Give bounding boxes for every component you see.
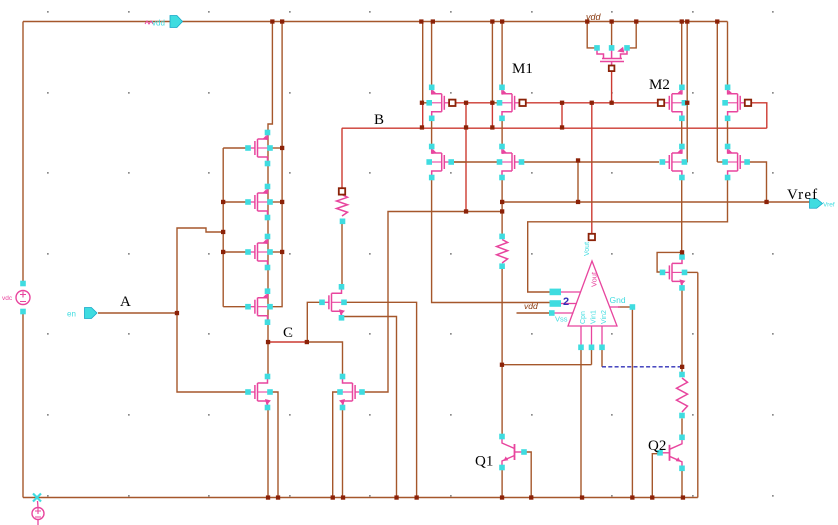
wire rail to moscap left bbox=[587, 22, 597, 48]
pmos T4 (diode stack) bbox=[257, 298, 259, 316]
junction gnd/N2 bbox=[341, 495, 345, 499]
resistor R1 bbox=[337, 195, 348, 216]
wire rail to moscap right bbox=[627, 22, 636, 48]
wire R3 to Q2 collector bbox=[681, 419, 683, 438]
wire M1 bulk bus lower bbox=[491, 103, 493, 128]
junction gnd/Cpn bbox=[580, 495, 584, 499]
junction col1 bulk bus bbox=[420, 101, 424, 105]
junction node C bbox=[266, 340, 270, 344]
wire node C to N2 drain bbox=[307, 342, 343, 377]
transistor Q2 (PNP) bbox=[669, 445, 671, 461]
wire N3 bulk stub bbox=[685, 271, 698, 273]
wire gate bus to node A bbox=[177, 228, 223, 313]
wire N1 bulk to ground bbox=[270, 392, 278, 498]
wire stack gate bus bbox=[222, 148, 224, 307]
wire vdd stub to op-amp Vss bbox=[517, 312, 550, 314]
wire Q1 emitter to ground bbox=[501, 468, 503, 498]
wire T4 gate stub bbox=[223, 306, 248, 308]
wire T1 gate stub bbox=[223, 147, 248, 149]
op-amp U1 pin Vin2 bbox=[599, 345, 605, 351]
wire R1 bottom to NB drain bbox=[341, 221, 343, 288]
wire op-amp Gnd stub bbox=[618, 306, 632, 308]
junction rail/M1 src bbox=[500, 19, 504, 23]
junction gnd/Q2 e bbox=[681, 495, 685, 499]
wire Q2 base to ground bbox=[652, 454, 662, 498]
source V1 (vdc) left bbox=[16, 291, 30, 305]
resistor R3 bbox=[677, 378, 688, 412]
nmos N2 bbox=[352, 383, 354, 401]
wire col1 drain to cascode bbox=[431, 118, 433, 148]
junction bias/col1 drop bbox=[464, 101, 468, 105]
svg-text:Vin2: Vin2 bbox=[601, 310, 608, 324]
wire rail to M2 cascode bulk bbox=[686, 22, 688, 163]
pmos M4 cascode bbox=[737, 153, 739, 171]
wire rail to stack bulk bus bbox=[270, 22, 282, 307]
junction Q1 collector / Vin1 bbox=[500, 363, 504, 367]
svg-text:Vss: Vss bbox=[555, 315, 568, 324]
wire N3 gate diode loop bbox=[657, 252, 682, 272]
wire net B down to R1 bbox=[341, 128, 343, 191]
pmos M1 cascode bbox=[511, 153, 513, 171]
terminal M4 gate bbox=[745, 100, 751, 106]
junction B/col1 drop bbox=[464, 125, 468, 129]
junction M2 bulk stub bbox=[685, 101, 689, 105]
pin R1 bottom bbox=[340, 219, 346, 225]
junction gnd/NB bulk bbox=[415, 495, 419, 499]
wire T3 gate stub bbox=[223, 251, 248, 253]
wire N2 source to ground bbox=[342, 408, 344, 498]
pin R2 top bbox=[499, 234, 505, 240]
wire N2 gate to M1 drain node bbox=[362, 212, 501, 393]
op-amp U1 bbox=[568, 261, 617, 326]
wire M1 drain to cascode bbox=[501, 118, 503, 148]
wire vdd top rail bbox=[23, 21, 728, 23]
wire rail to col1 source bbox=[431, 22, 433, 88]
wire M2 bulk stub bbox=[684, 102, 687, 104]
wire diode stack chain vertical bbox=[267, 133, 269, 377]
junction rail/M2 src bbox=[680, 19, 684, 23]
moscap M3 (gate tied to bias) bbox=[597, 48, 627, 66]
junction rail/col1 src bbox=[431, 19, 435, 23]
svg-text:en: en bbox=[67, 310, 76, 319]
wire node C up to NB gate bbox=[307, 302, 322, 342]
wire net Vref horizontal bbox=[502, 201, 810, 203]
terminal moscap gate bbox=[609, 66, 615, 72]
pin R2 bottom bbox=[499, 263, 505, 269]
wire op-amp Vin2 down bbox=[601, 347, 603, 367]
junction M1 drain line / col1 drop bbox=[464, 209, 468, 213]
terminal col1 gate bbox=[449, 100, 455, 106]
port Vref bbox=[810, 199, 823, 209]
terminal M2 gate bbox=[658, 100, 664, 106]
wire op-amp Vin1 down bbox=[591, 347, 593, 364]
wire M1 bulk stub bbox=[492, 102, 499, 104]
wire rail to moscap center bbox=[611, 22, 613, 48]
port vdd (top left) bbox=[170, 16, 183, 28]
op-amp U1 pin IN+ pad bbox=[550, 289, 562, 296]
wire M2 cascode drain down bbox=[681, 178, 683, 253]
terminal op-amp Vout net bbox=[589, 234, 595, 240]
wire op-amp Cpn to ground bbox=[580, 347, 582, 497]
pin V1 minus bbox=[20, 309, 26, 315]
wire gate bias col1-col2 bbox=[454, 102, 492, 104]
op-amp U1 pin IN- pad bbox=[550, 300, 562, 307]
terminal M1 gate bbox=[519, 100, 525, 106]
junction gnd/Gnd pin bbox=[630, 495, 634, 499]
wire M4 cascode bulk stub bbox=[717, 161, 725, 163]
junction M1 drain line bbox=[500, 209, 504, 213]
transistor Q1 (PNP) bbox=[514, 444, 516, 460]
wire bottom rail right end up to nmos N3 bulk bbox=[697, 273, 699, 498]
junction gnd/N2 bulk bbox=[331, 495, 335, 499]
wire cascode gate line bbox=[522, 161, 660, 163]
pmos M4 top right bbox=[737, 94, 739, 112]
svg-text:Q2: Q2 bbox=[648, 438, 666, 454]
junction bulk bus T3 bbox=[280, 250, 284, 254]
junction rail/moscap r bbox=[634, 19, 638, 23]
wire Vref node down to R2 bbox=[501, 202, 503, 236]
wire col1 drain to op-amp IN- bbox=[432, 178, 550, 303]
wire bias to net B drop bbox=[561, 103, 563, 128]
wire col1 bulk stub bbox=[422, 102, 429, 104]
junction rail/col1 bus bbox=[419, 19, 423, 23]
pmos M2 cascode bbox=[671, 153, 673, 171]
wire op-amp Vout vertical bbox=[591, 103, 593, 237]
wire moscap gate to bias line bbox=[611, 71, 613, 103]
svg-text:Gnd: Gnd bbox=[610, 295, 626, 305]
wire T3 bulk stub bbox=[270, 251, 282, 253]
wire Q2 emitter to ground bbox=[681, 468, 683, 498]
svg-text:M1: M1 bbox=[512, 61, 533, 77]
svg-text:Vref: Vref bbox=[787, 187, 818, 203]
pmos col1 cascode bbox=[441, 153, 443, 171]
pin R3 bottom bbox=[679, 413, 685, 419]
wire Q1 base to ground bbox=[522, 452, 531, 498]
op-amp U1 input leads bbox=[555, 292, 621, 347]
wire M4 gate to net B bbox=[748, 103, 767, 128]
junction B/M1 bus bbox=[490, 125, 494, 129]
op-amp U1 pin Cpn bbox=[578, 345, 584, 351]
wire cascode gate line left bbox=[451, 161, 499, 163]
svg-text:B: B bbox=[374, 112, 384, 128]
wire M4 cascode gate to Vref bbox=[747, 162, 767, 202]
junction gnd/Q1 e bbox=[500, 495, 504, 499]
wire M2 drain to cascode bbox=[681, 118, 683, 148]
pmos M1 bbox=[511, 94, 513, 112]
junction bias/Vout bbox=[590, 101, 594, 105]
junction node C / NB gate bbox=[305, 340, 309, 344]
svg-text:vdd: vdd bbox=[524, 301, 538, 311]
wire rail to M2 source bbox=[681, 22, 683, 88]
wire rail to M1 bulk bus bbox=[491, 22, 493, 103]
junction bias/B drop bbox=[560, 101, 564, 105]
ground source V0 bottom left bbox=[33, 494, 41, 502]
wire vdd rail drop to M4 source bbox=[727, 22, 729, 89]
svg-text:vdd: vdd bbox=[152, 19, 165, 28]
junction rail/M4 bulk bbox=[715, 19, 719, 23]
wire left supply vertical lower bbox=[22, 311, 24, 498]
nmos N1 (enable, node A gate) bbox=[257, 383, 259, 401]
wire NB source to ground bbox=[342, 317, 397, 498]
wire node A down to N1 gate bbox=[177, 313, 249, 392]
wire T1 bulk stub bbox=[270, 147, 282, 149]
junction dashed / R3 top bbox=[680, 365, 684, 369]
wire net B horizontal bbox=[342, 127, 767, 129]
junction gnd/Q1 b bbox=[529, 495, 533, 499]
svg-text:vdd: vdd bbox=[586, 12, 602, 22]
wire T2 gate stub bbox=[223, 201, 248, 203]
wire bias drop col1 bbox=[465, 103, 467, 212]
wire M4 drain to cascode bbox=[727, 118, 729, 148]
port en bbox=[85, 308, 98, 319]
junction rail/M2 bulk bbox=[685, 19, 689, 23]
wire rail to M1 source bbox=[501, 22, 503, 88]
wire en input to node A bbox=[98, 312, 177, 314]
junction node A bbox=[175, 311, 179, 315]
svg-text:Vref: Vref bbox=[823, 202, 835, 209]
junction stack gate bus / A feed bbox=[221, 230, 225, 234]
wire N3 source down to R3 bbox=[681, 288, 683, 375]
pmos col1 top bbox=[441, 94, 443, 112]
wire M1 cascode drain to Vref node bbox=[501, 178, 503, 203]
wire N2 bulk to ground bbox=[333, 392, 340, 498]
junction gate bus T2 bbox=[221, 200, 225, 204]
pin V1 plus bbox=[20, 281, 26, 287]
junction gnd/N1 bbox=[266, 495, 270, 499]
wire M2 cascode bulk stub bbox=[684, 161, 687, 163]
wire op-amp Vin1 to Q1 collector node bbox=[502, 364, 592, 366]
junction gnd/Q2 b bbox=[650, 495, 654, 499]
svg-text:C: C bbox=[283, 325, 293, 341]
wire col1 cascode gate stub bbox=[452, 161, 466, 163]
wire N1 source to ground bbox=[267, 407, 269, 498]
wire compensation net (dashed) bbox=[602, 366, 682, 368]
junction rail/M1 bus bbox=[490, 19, 494, 23]
op-amp U1 pin Vin1 bbox=[589, 345, 595, 351]
svg-text:A: A bbox=[120, 294, 131, 310]
svg-text:Vout: Vout bbox=[590, 271, 599, 287]
junction rail/moscap l bbox=[585, 19, 589, 23]
junction Vref / M4 branch bbox=[764, 200, 768, 204]
wire cascode line to Vref drop bbox=[577, 161, 579, 203]
junction B drop bbox=[560, 125, 564, 129]
junction bias/moscap bbox=[610, 101, 614, 105]
terminal R1 top bbox=[339, 188, 345, 194]
pmos T1 (diode stack) bbox=[257, 139, 259, 157]
svg-text:Vin1: Vin1 bbox=[591, 310, 598, 324]
junction rail/bulk bus bbox=[280, 19, 284, 23]
wire node C segment bbox=[268, 341, 307, 343]
junction gnd/NB src bbox=[394, 495, 398, 499]
pin R3 top bbox=[679, 372, 685, 378]
junction gnd/N1 bulk bbox=[276, 495, 280, 499]
junction bulk bus T2 bbox=[280, 200, 284, 204]
junction M1 bulk bus bbox=[490, 101, 494, 105]
wire op-amp Gnd to ground rail bbox=[631, 307, 633, 498]
junction Vref / cascode drop bbox=[576, 200, 580, 204]
junction rail/moscap c bbox=[610, 19, 614, 23]
label tiny pink marks at vdd port bbox=[145, 21, 153, 24]
junction cascode line/Vref drop bbox=[576, 158, 580, 162]
junction gate bus T3 bbox=[221, 250, 225, 254]
wire rail to M4 cascode bulk bbox=[716, 22, 718, 163]
wire R2 bottom to Q1 collector bbox=[501, 266, 503, 436]
junction N3 diode bbox=[680, 250, 684, 254]
svg-text:vdc: vdc bbox=[2, 295, 13, 302]
junction rail/T1 bbox=[270, 19, 274, 23]
nmos N3 (diode above R3) bbox=[671, 263, 673, 281]
wire M4 branch to op-amp IN+ bbox=[528, 178, 728, 293]
wire left supply vertical upper bbox=[22, 22, 24, 285]
svg-text:M2: M2 bbox=[649, 77, 670, 93]
wire col1 bulk bus lower bbox=[422, 103, 424, 128]
junction bulk bus T1 bbox=[280, 146, 284, 150]
pmos T2 (diode stack) bbox=[257, 193, 259, 211]
svg-text:Q1: Q1 bbox=[475, 454, 493, 470]
svg-text:Cpn: Cpn bbox=[580, 311, 587, 324]
wire gate bias col2-col3 bbox=[525, 102, 659, 104]
nmos NB (gate at node C) bbox=[331, 293, 333, 311]
wire rail to T1 source bbox=[268, 22, 272, 134]
op-amp U1 pin Gnd bbox=[630, 304, 636, 310]
pmos M2 bbox=[671, 94, 673, 112]
pmos T3 (diode stack) bbox=[257, 243, 259, 261]
svg-text:2: 2 bbox=[563, 296, 569, 308]
wire NB bulk to ground bbox=[344, 302, 417, 497]
wire T2 bulk stub bbox=[270, 201, 282, 203]
resistor R2 bbox=[497, 240, 508, 264]
wire ground bottom rail bbox=[23, 497, 698, 499]
junction Vref / M1 drain bbox=[500, 200, 504, 204]
op-amp U1 pin Vss bbox=[549, 310, 555, 316]
junction B/col1 bus bbox=[420, 125, 424, 129]
wire rail to col1 bulk bus bbox=[422, 22, 424, 103]
svg-text:Vout: Vout bbox=[584, 242, 591, 256]
